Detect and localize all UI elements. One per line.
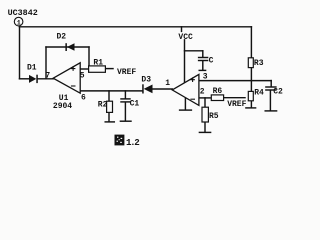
svg-text:VCC: VCC (178, 33, 193, 42)
svg-text:5: 5 (80, 72, 85, 81)
svg-text:R1: R1 (93, 58, 103, 67)
svg-text:C1: C1 (130, 100, 140, 109)
svg-text:C: C (209, 57, 214, 66)
svg-text:7: 7 (45, 72, 50, 81)
svg-text:R4: R4 (254, 88, 264, 97)
svg-text:D3: D3 (141, 76, 151, 85)
svg-text:1.2: 1.2 (126, 137, 140, 148)
svg-text:2904: 2904 (53, 102, 72, 111)
svg-text:R2: R2 (98, 101, 108, 110)
svg-text:R5: R5 (209, 112, 219, 121)
svg-text:D2: D2 (57, 33, 67, 42)
svg-text:1: 1 (165, 79, 170, 88)
svg-text:R6: R6 (213, 87, 223, 96)
svg-text:1: 1 (17, 19, 21, 27)
svg-text:6: 6 (81, 93, 86, 102)
svg-text:2: 2 (200, 87, 205, 96)
svg-text:VREF: VREF (227, 100, 246, 109)
svg-text:D1: D1 (27, 64, 37, 73)
svg-text:VREF: VREF (117, 68, 136, 77)
svg-text:C2: C2 (273, 88, 283, 97)
svg-text:3: 3 (203, 72, 208, 81)
svg-text:R3: R3 (254, 59, 264, 68)
svg-text:UC3842: UC3842 (8, 8, 38, 18)
